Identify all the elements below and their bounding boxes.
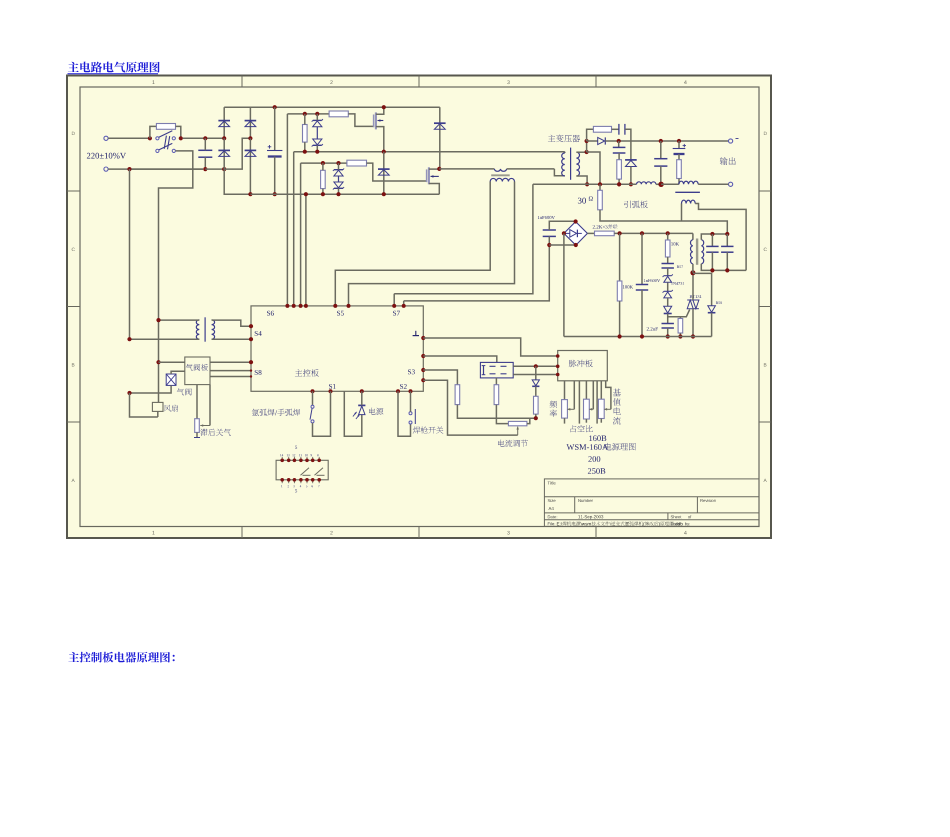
resistor gate upper — [329, 111, 348, 117]
capacitor snubber output — [618, 124, 620, 135]
zone numbers top — [152, 80, 154, 84]
diode snubber output — [625, 159, 637, 161]
label WSM-160A — [567, 444, 609, 450]
node snub1 Z top — [315, 112, 319, 116]
pins right side — [421, 336, 425, 340]
wire sec top to diode node — [586, 141, 588, 152]
label 160B — [589, 435, 606, 441]
input terminal N — [104, 167, 108, 171]
transformer pulse secondary — [701, 240, 703, 264]
node D-clamp lower bottom — [382, 192, 386, 196]
node L2 — [179, 136, 183, 140]
schematic sheet background — [67, 76, 771, 539]
label 200 — [588, 456, 600, 462]
zener pair lower — [334, 169, 343, 171]
wire to damper diode — [693, 273, 712, 305]
node cap2 top — [640, 231, 644, 235]
label S4 — [255, 331, 262, 336]
triac BT131 — [690, 295, 702, 298]
wire S6-4 — [305, 194, 307, 306]
zone letters right — [764, 132, 767, 135]
transformer HF primary — [679, 181, 698, 184]
wire phase A to bridge — [183, 137, 225, 139]
node snub1 R top — [303, 112, 307, 116]
transformer CT primary humps — [494, 169, 506, 171]
pins S6 top — [285, 304, 289, 308]
wire drain rail to transformer — [439, 168, 494, 170]
connector top pins — [281, 457, 283, 460]
resistor S3 leg — [455, 385, 460, 405]
capacitor tank B — [726, 234, 728, 246]
label arc board — [624, 201, 648, 209]
node cap top — [203, 136, 207, 140]
diode damper R58 — [716, 302, 722, 305]
pins S7 top — [392, 304, 396, 308]
fan box — [152, 402, 163, 411]
zener second — [667, 283, 669, 292]
output terminal plus — [729, 139, 733, 143]
node minus RC — [617, 182, 621, 186]
node plus1 — [617, 139, 621, 143]
resistor RC branch — [617, 160, 622, 179]
wire HF sec right — [695, 204, 746, 271]
node tank A bottom — [710, 268, 714, 272]
node Tc bottom — [127, 337, 131, 341]
label S8 — [255, 370, 262, 375]
potentiometer current adjust — [498, 440, 528, 447]
wire phase B row — [131, 168, 203, 170]
node snub2 Z bottom — [336, 192, 340, 196]
pins S8 left — [249, 360, 253, 364]
node Q1 drain — [382, 105, 386, 109]
node 100K bottom — [618, 334, 622, 338]
wire S7-1 riser — [394, 184, 533, 293]
wire col1 to bottom bus — [224, 169, 250, 194]
label S7 — [393, 311, 400, 316]
resistor bleeder output — [677, 160, 682, 179]
current sensor box — [480, 362, 513, 378]
label J5 top — [295, 446, 297, 449]
resistor snubber lower — [321, 170, 326, 188]
wire input N — [108, 168, 203, 170]
wire S7-2 riser — [404, 245, 550, 301]
wire T-control primary bottom — [130, 338, 200, 340]
node pulse primary bottom — [690, 270, 695, 275]
label pulse board — [569, 360, 593, 368]
node sec tap — [585, 150, 589, 154]
diode D22 — [249, 138, 251, 194]
switch TIG/MMA select — [252, 409, 300, 416]
node minus tap — [598, 182, 602, 186]
transformer T1 core — [570, 148, 572, 180]
wire row2 to bridge — [205, 168, 224, 170]
node rect diode anode — [585, 139, 589, 143]
zener pair upper — [313, 119, 322, 121]
pins pulse left — [556, 354, 560, 358]
node tank B bottom — [725, 268, 729, 272]
label 220V input — [87, 153, 126, 159]
resistor snubber output — [587, 129, 594, 141]
wire S6-2 — [293, 152, 295, 306]
inductor output choke — [637, 182, 656, 185]
node 100K top — [618, 231, 622, 235]
transistor Q1 MOSFET upper — [373, 115, 375, 128]
label cap 1nF600V input — [538, 216, 555, 219]
wire triac MT2 — [692, 273, 694, 300]
wire sec to S4-1 — [212, 320, 251, 326]
sheet inner border — [80, 87, 759, 527]
transformer CT core — [491, 174, 510, 176]
label J5 bottom — [295, 489, 297, 492]
wire tap to minus rail — [587, 152, 600, 184]
diode D-clamp lower — [383, 152, 385, 195]
label main transformer — [548, 135, 580, 143]
resistor gate lower — [347, 160, 367, 166]
node col2 bottom — [248, 192, 252, 196]
heading: control board schematic title — [68, 652, 174, 663]
wire sec top tap — [576, 151, 586, 153]
wire S8-2 — [210, 370, 251, 372]
node snub2 R bottom — [321, 192, 325, 196]
diode trigger — [667, 298, 669, 306]
pins S5 top — [333, 304, 337, 308]
node arc cap bottom — [547, 243, 551, 247]
resistor 30 ohm — [578, 198, 586, 204]
wire fan bottom — [157, 411, 159, 417]
main control board box — [251, 306, 423, 391]
node MT1 bottom — [691, 334, 695, 338]
wire pulse pin6 — [596, 381, 598, 424]
wire bottom bus — [250, 193, 439, 195]
node bridge bottom — [574, 243, 578, 247]
wire S3 branch — [423, 370, 457, 385]
label S5 — [337, 311, 344, 316]
title block texts — [548, 481, 556, 484]
wiper frequency — [573, 381, 575, 410]
transformer HF secondary — [682, 200, 696, 203]
node cap2 bottom — [640, 334, 644, 338]
transformer T1 primary — [564, 152, 566, 153]
wire sensor bottom to pot — [495, 378, 497, 385]
node RC bottom — [617, 182, 621, 186]
capacitor RC branch — [618, 141, 620, 147]
bridge rectifier arc diamond — [564, 222, 588, 246]
pot duty cycle — [571, 425, 593, 432]
node Tc top — [156, 318, 160, 322]
label main board — [295, 369, 319, 377]
node bridge col1 row2 — [222, 167, 226, 171]
resistor sensor leg — [494, 385, 499, 405]
diode feedback — [535, 366, 537, 380]
transformer T1 secondary — [576, 152, 579, 176]
switch torch trigger — [413, 427, 444, 434]
resistor 100K — [619, 233, 621, 281]
node L1 — [148, 136, 152, 140]
wire HF sec left down — [681, 204, 683, 222]
wire sensor out1 — [513, 365, 558, 367]
resistor soft-start bypass — [150, 126, 157, 138]
label gas valve board — [186, 364, 208, 371]
wire phase B after contact — [159, 151, 193, 403]
resistor snubber upper — [303, 125, 308, 143]
node 2u2 bottom — [666, 334, 670, 338]
node S6-4 bus — [304, 192, 308, 196]
node minus big — [658, 182, 663, 187]
capacitor arc input — [543, 229, 556, 231]
wire S6-1 gate drive upper — [286, 114, 288, 306]
node bus cap top — [273, 105, 277, 109]
wire snubber row lower — [301, 162, 347, 164]
node tank cap B top — [725, 232, 729, 236]
lamp power LED — [369, 408, 383, 415]
label S3 — [408, 369, 415, 374]
gas valve board box — [185, 357, 210, 385]
wire row2 jog to col2 — [224, 138, 250, 169]
node sensor out1 — [534, 364, 538, 368]
wire cap bottom to bridge — [549, 244, 576, 246]
wire CT sec right to S5 — [349, 182, 515, 306]
title block frame — [544, 479, 759, 527]
transformer HF core — [675, 191, 700, 193]
connector J5 box — [276, 460, 328, 480]
node Q1 source — [382, 150, 386, 154]
node N1 — [127, 167, 131, 171]
relay contact K1 upper — [156, 137, 159, 140]
node valve N — [127, 391, 131, 395]
label gas valve — [177, 388, 192, 395]
wire CT sec left to S5 — [335, 182, 490, 306]
wire sec bottom — [576, 176, 587, 184]
wire snubber row upper — [287, 113, 329, 115]
connector top pin numbers — [280, 454, 283, 456]
wire N phase drop — [129, 169, 131, 339]
zener 1N4731 — [664, 275, 672, 277]
node snub2 R top — [321, 161, 325, 165]
pot base current — [613, 389, 621, 397]
node bulk bottom — [273, 192, 277, 196]
label S6 — [267, 311, 274, 316]
zone letters left — [72, 132, 75, 135]
label fan — [164, 405, 178, 412]
resistor feedback — [535, 386, 537, 396]
node valve board tap — [156, 360, 160, 364]
wire DC rail arc — [614, 232, 693, 234]
wire valve board feed — [159, 361, 185, 363]
relay linkage — [164, 136, 166, 149]
gas valve solenoid — [166, 374, 176, 385]
wire input L — [108, 137, 150, 139]
resistor 2.2K x3 — [587, 232, 594, 234]
heading: main circuit schematic title — [68, 62, 160, 73]
transformer CT secondary — [490, 178, 514, 181]
capacitor 1nF mid — [641, 233, 643, 284]
node snub2 Z top — [336, 161, 340, 165]
transformer T-control secondary — [212, 320, 215, 339]
wire sec to S4-2 — [212, 338, 251, 340]
transformer T-control core — [204, 317, 206, 341]
node feedback bottom — [534, 416, 538, 420]
wire N to fan loop — [130, 393, 158, 417]
capacitor 2.2uF — [647, 327, 658, 330]
node bridge col1 mid — [222, 136, 226, 140]
wire ground to pulse board — [423, 338, 557, 356]
capacitor C-bulk electrolytic — [274, 107, 276, 150]
diode D21 — [249, 107, 251, 138]
wire pulse sec bottom / tank bus — [701, 264, 746, 271]
wire minus rail left — [533, 183, 637, 185]
wire sense feed — [423, 356, 497, 362]
resistor 10K — [667, 233, 669, 240]
resistor gate — [679, 317, 681, 319]
label 2.2Kx3 parallel — [593, 224, 618, 229]
node tank cap A top — [710, 232, 714, 236]
capacitor output filter — [660, 141, 662, 159]
label delay gas off — [200, 429, 231, 436]
wire S8-1 — [210, 361, 251, 363]
wiper delay — [209, 385, 211, 426]
wiper duty cycle — [592, 381, 594, 410]
transformer pulse core — [696, 239, 698, 265]
wire pulse sec top — [701, 234, 727, 240]
node sec bottom — [585, 182, 589, 186]
wire S6-3 — [300, 163, 302, 306]
transformer T-control primary — [196, 320, 199, 339]
capacitor tank A — [711, 234, 713, 246]
label 250B — [588, 468, 605, 474]
wire sensor out2 — [513, 374, 558, 376]
node plus2 — [659, 139, 663, 143]
node Q2 drain — [437, 167, 441, 171]
wire S8-3 — [210, 376, 251, 378]
pins bottom — [311, 389, 315, 393]
wire top bus — [224, 106, 440, 108]
zone numbers bottom — [152, 531, 154, 535]
node 10K top — [666, 231, 670, 235]
node snub1 R bottom — [303, 150, 307, 154]
capacitor R57 — [667, 257, 669, 264]
pot frequency — [550, 401, 557, 408]
connector bottom pins — [281, 480, 283, 483]
wiper current adjust — [423, 380, 517, 435]
output terminal minus — [729, 182, 733, 186]
capacitor output electrolytic — [678, 141, 680, 149]
node bridge col2 mid — [248, 136, 252, 140]
node cap bottom — [203, 167, 207, 171]
zone tick marks — [241, 76, 243, 88]
transistor Q2 MOSFET lower — [426, 169, 428, 182]
node plus3 — [677, 139, 681, 143]
diode D12 — [223, 138, 225, 169]
wire to HF primary — [661, 183, 679, 185]
diode D11 — [223, 107, 225, 138]
label S1 — [329, 384, 336, 389]
wire gate lower — [367, 163, 427, 181]
label output — [720, 157, 736, 165]
input terminal L — [104, 136, 108, 140]
wire valve to N — [130, 385, 172, 393]
wire gate upper — [348, 114, 373, 127]
wire jog primary bottom — [554, 169, 564, 176]
transformer pulse primary — [692, 233, 694, 239]
node snub1 Z bottom — [315, 150, 319, 154]
node gate R bottom — [678, 334, 682, 338]
pins S4 left — [249, 324, 253, 328]
relay contact K1 lower — [156, 149, 159, 152]
pulse board box — [558, 351, 608, 381]
diode D-clamp upper — [439, 107, 441, 169]
node bridge top — [574, 219, 578, 223]
node bridge left — [562, 231, 566, 235]
node snub diode bottom — [629, 182, 633, 186]
connector switch glyph 2 — [315, 468, 324, 476]
resistor delay gas-off — [196, 385, 198, 419]
diode D-rect output — [587, 140, 598, 142]
label S2 — [400, 384, 407, 389]
wiper base current — [606, 381, 611, 410]
capacitor X line filter — [198, 149, 212, 151]
wire bridge left down — [563, 233, 565, 336]
wire triac MT1 — [692, 309, 694, 337]
wire arc bottom rail — [564, 336, 712, 338]
wire plus rail — [619, 140, 729, 142]
ground symbol — [415, 331, 417, 336]
wire gate node — [668, 310, 690, 317]
connector switch glyph 1 — [301, 468, 310, 476]
wire mid rail — [294, 151, 565, 153]
wire pulse pin3 — [578, 381, 580, 424]
wire T-control primary top — [159, 319, 200, 321]
connector bottom pin numbers — [281, 485, 282, 487]
